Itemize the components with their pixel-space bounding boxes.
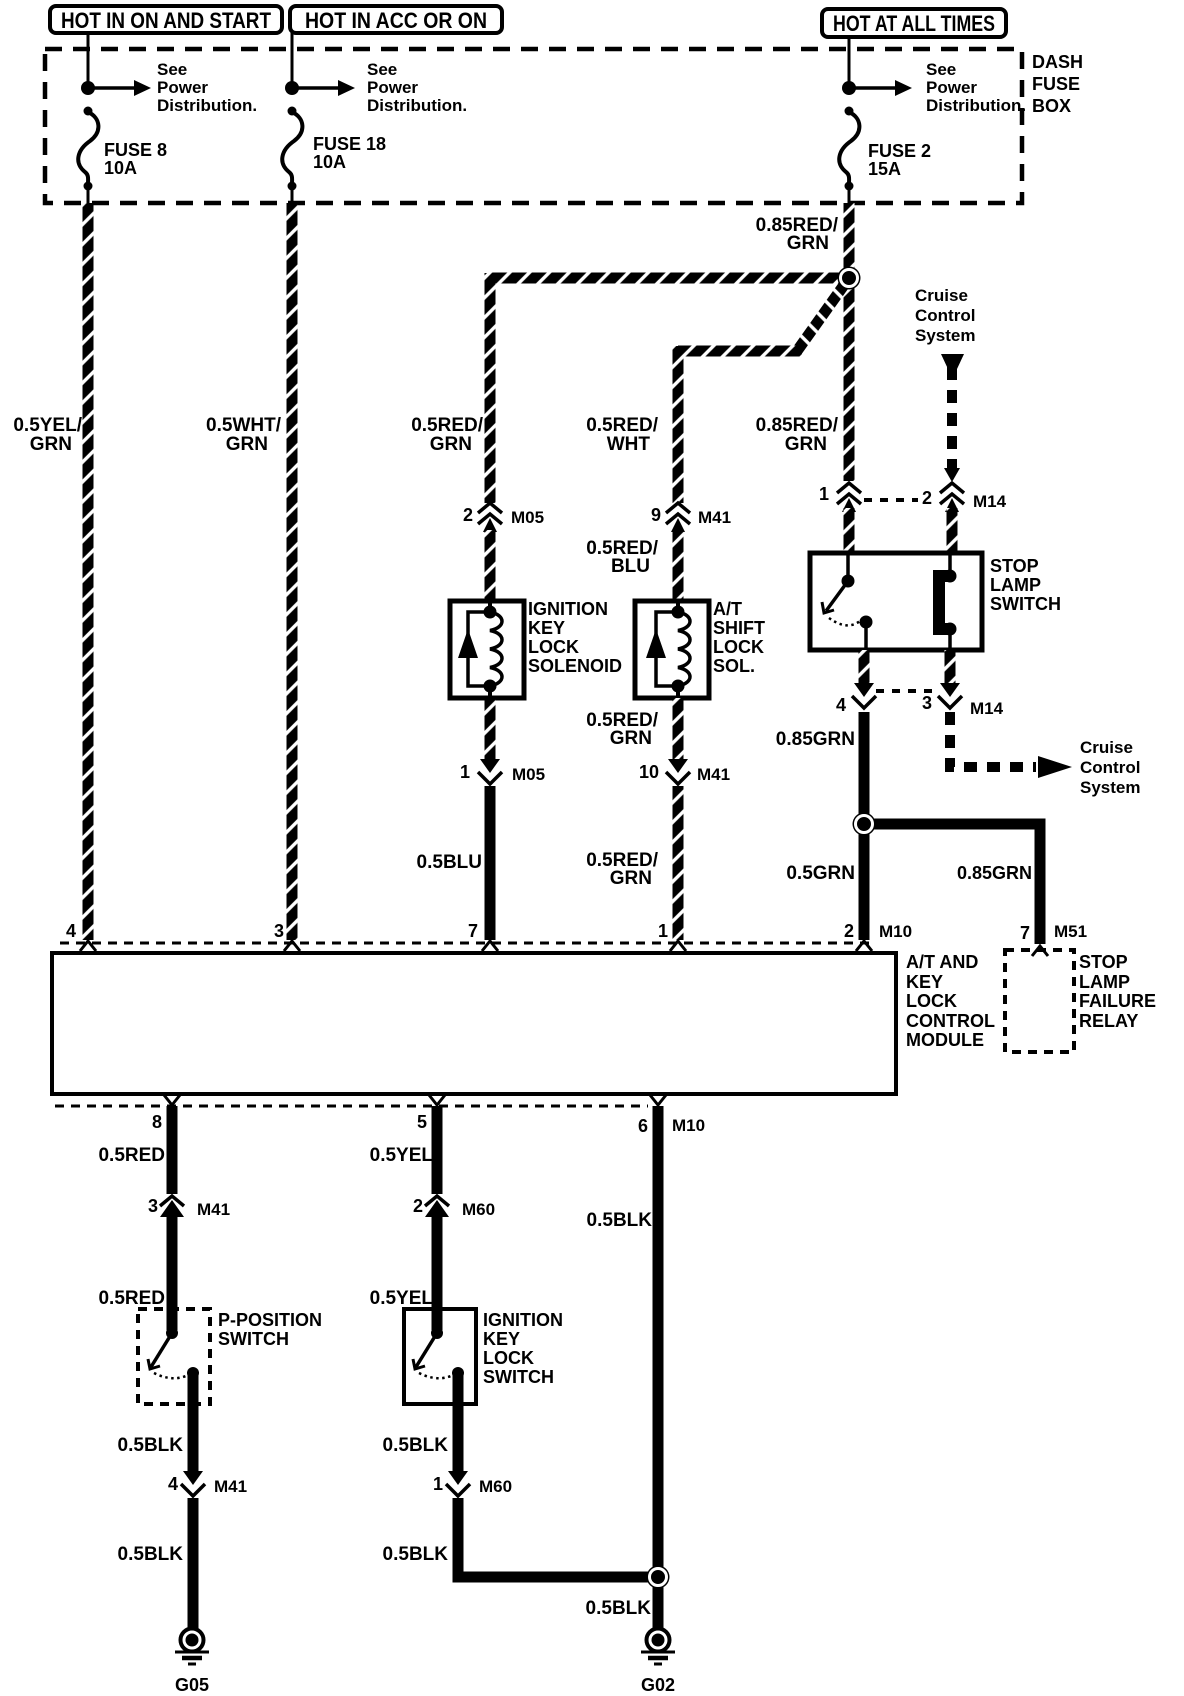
svg-text:0.5BLK: 0.5BLK bbox=[586, 1598, 652, 1619]
wire 0.85GRN from M14 pin4 to junction and module pin2 bbox=[859, 712, 870, 940]
svg-text:0.85GRN: 0.85GRN bbox=[776, 729, 855, 750]
svg-text:4: 4 bbox=[168, 1474, 178, 1494]
wire 0.5RED/GRN to module pin1 bbox=[673, 786, 684, 940]
wire stop lamp switch right leg down bbox=[945, 650, 956, 684]
stub wire under HOT AT ALL TIMES bbox=[848, 37, 851, 49]
svg-text:WHT: WHT bbox=[607, 434, 651, 455]
svg-text:Cruise: Cruise bbox=[915, 286, 968, 305]
svg-text:0.5RED/: 0.5RED/ bbox=[586, 415, 659, 436]
svg-text:BOX: BOX bbox=[1032, 96, 1071, 116]
wire M14 pin1 to stop lamp switch bbox=[844, 508, 855, 552]
svg-text:9: 9 bbox=[651, 505, 661, 525]
svg-text:10A: 10A bbox=[313, 152, 346, 172]
svg-text:System: System bbox=[915, 326, 975, 345]
wire diagonal branch 0.5RED/WHT bbox=[797, 278, 849, 351]
dashed link between M14 pins 4-3 bbox=[876, 689, 936, 693]
wire solenoid to connector M05 pin1 bbox=[485, 698, 496, 760]
module pin 6 M10 bbox=[650, 1095, 666, 1105]
svg-text:LOCK: LOCK bbox=[906, 991, 957, 1011]
wire 0.85GRN branch to stop lamp failure relay bbox=[864, 824, 1040, 940]
svg-text:M41: M41 bbox=[698, 508, 731, 527]
svg-text:0.5WHT/: 0.5WHT/ bbox=[206, 415, 282, 436]
connector M41 pin3 bbox=[160, 1196, 184, 1206]
svg-text:System: System bbox=[1080, 778, 1140, 797]
ignition key lock solenoid bbox=[450, 601, 524, 698]
wire 0.5BLK to ground G05 bbox=[188, 1498, 199, 1630]
svg-text:M10: M10 bbox=[672, 1116, 705, 1135]
svg-text:0.85RED/: 0.85RED/ bbox=[756, 415, 839, 436]
svg-text:0.5YEL/: 0.5YEL/ bbox=[13, 415, 82, 436]
stop lamp switch box bbox=[810, 553, 982, 650]
svg-text:LOCK: LOCK bbox=[483, 1348, 534, 1368]
fuse FUSE 18 10A bbox=[291, 49, 294, 86]
wire M14 pin2 to stop lamp switch bbox=[947, 508, 958, 552]
svg-text:7: 7 bbox=[1020, 923, 1030, 943]
svg-text:0.5BLU: 0.5BLU bbox=[417, 852, 482, 873]
svg-text:SOLENOID: SOLENOID bbox=[528, 656, 622, 676]
svg-text:1: 1 bbox=[819, 484, 829, 504]
svg-text:GRN: GRN bbox=[787, 233, 829, 254]
svg-text:STOP: STOP bbox=[990, 556, 1039, 576]
svg-text:FUSE 2: FUSE 2 bbox=[868, 141, 931, 161]
svg-text:CONTROL: CONTROL bbox=[906, 1011, 995, 1031]
fuse FUSE 2 15A bbox=[848, 49, 851, 86]
wire 0.5BLU to module pin7 bbox=[485, 786, 496, 940]
svg-text:M05: M05 bbox=[512, 765, 545, 784]
wire stop lamp switch left leg down bbox=[859, 650, 870, 684]
module pin 2 M10 bbox=[856, 941, 872, 951]
wire 0.5BLK module pin6 to ground G02 bbox=[653, 1106, 664, 1630]
svg-text:3: 3 bbox=[922, 693, 932, 713]
svg-text:FUSE: FUSE bbox=[1032, 74, 1080, 94]
connector M60 pin2 bbox=[425, 1196, 449, 1206]
svg-text:See: See bbox=[157, 60, 187, 79]
A/T shift lock solenoid bbox=[635, 601, 709, 698]
svg-text:2: 2 bbox=[922, 488, 932, 508]
header box HOT AT ALL TIMES bbox=[822, 9, 1006, 37]
svg-text:G05: G05 bbox=[175, 1675, 209, 1695]
svg-text:LAMP: LAMP bbox=[990, 575, 1041, 595]
svg-text:0.5YEL: 0.5YEL bbox=[370, 1145, 434, 1166]
connector M41 pin4 bbox=[183, 1471, 203, 1485]
svg-text:G02: G02 bbox=[641, 1675, 675, 1695]
module pin 4 bbox=[80, 941, 96, 951]
svg-text:Distribution.: Distribution. bbox=[157, 96, 257, 115]
svg-text:Distribution.: Distribution. bbox=[367, 96, 467, 115]
connector M14 pin2 from cruise control bbox=[944, 468, 960, 482]
svg-text:0.85GRN: 0.85GRN bbox=[957, 863, 1032, 883]
wire 0.5YEL module pin5 down bbox=[432, 1106, 443, 1194]
svg-text:6: 6 bbox=[638, 1116, 648, 1136]
svg-text:1: 1 bbox=[658, 921, 668, 941]
header box HOT IN ACC OR ON bbox=[290, 6, 502, 33]
wire 0.5BLK to junction bbox=[458, 1498, 652, 1577]
svg-text:4: 4 bbox=[836, 695, 846, 715]
stop lamp failure relay dashed box bbox=[1005, 950, 1074, 1052]
svg-text:Cruise: Cruise bbox=[1080, 738, 1133, 757]
wire 0.85RED/GRN fuse2 down to connector M14 pin1 bbox=[844, 203, 855, 481]
junction ring at 0.85RED/GRN bbox=[838, 267, 861, 290]
svg-text:Control: Control bbox=[1080, 758, 1140, 777]
wire 0.5RED/WHT down to connector M41 pin9 bbox=[673, 346, 684, 503]
svg-text:FUSE 8: FUSE 8 bbox=[104, 140, 167, 160]
svg-text:M14: M14 bbox=[973, 492, 1007, 511]
wire 0.5YEL to ignition key lock switch bbox=[432, 1214, 443, 1330]
svg-text:15A: 15A bbox=[868, 159, 901, 179]
svg-text:BLU: BLU bbox=[611, 556, 650, 577]
svg-text:M41: M41 bbox=[214, 1477, 247, 1496]
svg-text:KEY: KEY bbox=[483, 1329, 520, 1349]
svg-text:0.5BLK: 0.5BLK bbox=[118, 1435, 184, 1456]
svg-text:A/T: A/T bbox=[713, 599, 742, 619]
fuse FUSE 8 10A bbox=[87, 49, 90, 86]
wire 0.5BLK p-position switch down bbox=[188, 1373, 199, 1472]
stop lamp switch contacts bbox=[846, 553, 850, 578]
svg-text:1: 1 bbox=[460, 762, 470, 782]
header box HOT IN ON AND START bbox=[50, 6, 282, 33]
svg-text:4: 4 bbox=[66, 921, 76, 941]
module pin 5 bbox=[429, 1095, 445, 1105]
svg-text:Control: Control bbox=[915, 306, 975, 325]
svg-text:IGNITION: IGNITION bbox=[528, 599, 608, 619]
svg-text:LAMP: LAMP bbox=[1079, 972, 1130, 992]
svg-text:1: 1 bbox=[433, 1474, 443, 1494]
svg-text:SHIFT: SHIFT bbox=[713, 618, 765, 638]
svg-text:0.5BLK: 0.5BLK bbox=[383, 1435, 449, 1456]
stop lamp switch right bracket bbox=[948, 553, 952, 573]
svg-text:0.5BLK: 0.5BLK bbox=[587, 1210, 653, 1231]
wire solenoid to connector M41 pin10 bbox=[673, 698, 684, 760]
svg-text:M41: M41 bbox=[197, 1200, 230, 1219]
connector M41 pin9 bbox=[666, 503, 690, 513]
svg-text:DASH: DASH bbox=[1032, 52, 1083, 72]
svg-text:8: 8 bbox=[152, 1112, 162, 1132]
svg-text:M60: M60 bbox=[479, 1477, 512, 1496]
ignition key lock switch box bbox=[404, 1309, 476, 1404]
svg-text:Power: Power bbox=[367, 78, 418, 97]
svg-text:Power: Power bbox=[157, 78, 208, 97]
svg-text:RELAY: RELAY bbox=[1079, 1011, 1138, 1031]
svg-text:IGNITION: IGNITION bbox=[483, 1310, 563, 1330]
wire 0.5RED/GRN down to connector M05 pin2 bbox=[485, 273, 496, 503]
svg-text:2: 2 bbox=[463, 505, 473, 525]
svg-text:7: 7 bbox=[468, 921, 478, 941]
A/T and key lock control module box bbox=[52, 953, 896, 1094]
svg-text:M14: M14 bbox=[970, 699, 1004, 718]
svg-text:10A: 10A bbox=[104, 158, 137, 178]
svg-text:GRN: GRN bbox=[430, 434, 472, 455]
dash fuse box dashed border bbox=[45, 49, 1022, 203]
svg-text:GRN: GRN bbox=[226, 434, 268, 455]
svg-text:3: 3 bbox=[148, 1196, 158, 1216]
wire 0.5WHT/GRN fuse18 to module pin3 bbox=[287, 203, 298, 940]
wire branch horizontal 0.5RED/GRN bbox=[490, 273, 849, 284]
svg-text:M05: M05 bbox=[511, 508, 544, 527]
svg-text:0.5BLK: 0.5BLK bbox=[118, 1544, 184, 1565]
svg-text:SWITCH: SWITCH bbox=[990, 594, 1061, 614]
svg-text:KEY: KEY bbox=[528, 618, 565, 638]
svg-text:LOCK: LOCK bbox=[713, 637, 764, 657]
cruise control dashed wire from above bbox=[941, 354, 964, 369]
svg-text:M60: M60 bbox=[462, 1200, 495, 1219]
wire 0.5RED module pin8 down bbox=[167, 1106, 178, 1194]
svg-text:SWITCH: SWITCH bbox=[483, 1367, 554, 1387]
ignition key lock switch contacts bbox=[431, 1327, 443, 1339]
svg-text:3: 3 bbox=[274, 921, 284, 941]
svg-text:0.5GRN: 0.5GRN bbox=[786, 863, 855, 884]
svg-text:P-POSITION: P-POSITION bbox=[218, 1310, 322, 1330]
svg-text:FUSE 18: FUSE 18 bbox=[313, 134, 386, 154]
svg-text:KEY: KEY bbox=[906, 972, 943, 992]
module pin 8 bbox=[164, 1095, 180, 1105]
svg-text:GRN: GRN bbox=[30, 434, 72, 455]
svg-text:Distribution.: Distribution. bbox=[926, 96, 1026, 115]
svg-text:0.5BLK: 0.5BLK bbox=[383, 1544, 449, 1565]
svg-text:MODULE: MODULE bbox=[906, 1030, 984, 1050]
svg-text:2: 2 bbox=[413, 1196, 423, 1216]
stub wire under HOT IN ACC OR ON bbox=[291, 33, 294, 49]
svg-text:SOL.: SOL. bbox=[713, 656, 755, 676]
module pin 7 bbox=[482, 941, 498, 951]
ground G05 bbox=[181, 1629, 204, 1652]
svg-text:0.5RED: 0.5RED bbox=[98, 1145, 165, 1166]
p-position switch dashed box bbox=[138, 1309, 210, 1404]
svg-text:Power: Power bbox=[926, 78, 977, 97]
svg-text:M41: M41 bbox=[697, 765, 730, 784]
svg-text:HOT AT ALL TIMES: HOT AT ALL TIMES bbox=[833, 11, 995, 36]
wire 0.5BLK ignition key lock switch down bbox=[453, 1373, 464, 1472]
svg-text:GRN: GRN bbox=[610, 728, 652, 749]
wire horizontal 0.5RED/WHT bbox=[678, 346, 802, 357]
connector M14 pin1 bbox=[837, 483, 861, 493]
wire 0.5RED to p-position switch bbox=[167, 1214, 178, 1330]
connector M05 pin2 bbox=[478, 503, 502, 513]
svg-text:STOP: STOP bbox=[1079, 952, 1128, 972]
svg-text:See: See bbox=[926, 60, 956, 79]
svg-text:M10: M10 bbox=[879, 922, 912, 941]
module pin 1 bbox=[670, 941, 686, 951]
connector M60 pin1 bbox=[448, 1471, 468, 1485]
svg-text:FAILURE: FAILURE bbox=[1079, 991, 1156, 1011]
ground G02 bbox=[647, 1629, 670, 1652]
connector M14 pin3 bbox=[940, 683, 960, 697]
svg-text:M51: M51 bbox=[1054, 922, 1087, 941]
junction ring 0.5BLK bbox=[647, 1566, 670, 1589]
connector M41 pin10 bbox=[668, 759, 688, 773]
svg-text:A/T AND: A/T AND bbox=[906, 952, 978, 972]
svg-text:5: 5 bbox=[417, 1112, 427, 1132]
svg-text:0.5YEL: 0.5YEL bbox=[370, 1288, 434, 1309]
svg-text:GRN: GRN bbox=[785, 434, 827, 455]
svg-text:LOCK: LOCK bbox=[528, 637, 579, 657]
dashed link between M14 pins 1-2 bbox=[864, 498, 918, 502]
svg-text:GRN: GRN bbox=[610, 868, 652, 889]
svg-text:0.5RED/: 0.5RED/ bbox=[411, 415, 484, 436]
svg-text:SWITCH: SWITCH bbox=[218, 1329, 289, 1349]
wire M41 pin9 to A/T shift lock sol bbox=[673, 530, 684, 601]
relay pin 7 M51 bbox=[1035, 938, 1046, 944]
svg-text:HOT IN ACC OR ON: HOT IN ACC OR ON bbox=[305, 8, 487, 33]
connector M05 pin1 bbox=[480, 759, 500, 773]
module pin 3 bbox=[284, 941, 300, 951]
p-position switch contacts bbox=[166, 1327, 178, 1339]
svg-text:See: See bbox=[367, 60, 397, 79]
module top dashed connector line bbox=[60, 942, 870, 945]
module bottom dashed connector line bbox=[55, 1105, 648, 1108]
connector M14 pin4 bbox=[854, 683, 874, 697]
svg-text:0.5RED: 0.5RED bbox=[98, 1288, 165, 1309]
wire M05 pin2 to ignition key lock solenoid bbox=[485, 530, 496, 601]
svg-text:HOT IN ON AND START: HOT IN ON AND START bbox=[61, 8, 271, 33]
wire 0.5YEL/GRN fuse8 to module pin4 bbox=[83, 203, 94, 940]
svg-text:10: 10 bbox=[639, 762, 659, 782]
cruise control dashed wire from M14 pin3 bbox=[950, 712, 1036, 767]
svg-text:2: 2 bbox=[844, 921, 854, 941]
stub wire under HOT IN ON AND START bbox=[87, 33, 90, 49]
